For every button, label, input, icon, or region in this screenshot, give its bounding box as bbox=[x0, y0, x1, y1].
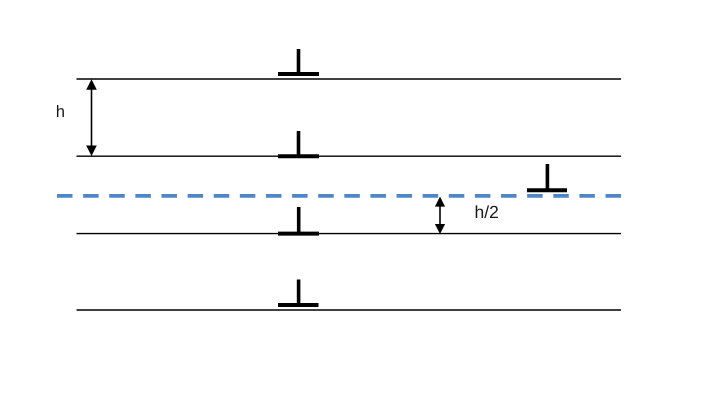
dashed image-plane line (blue) bbox=[57, 194, 621, 198]
label h bbox=[57, 105, 64, 117]
dimension arrow h/2 (between dashed line and line 3) bbox=[435, 197, 445, 234]
monopole antenna marker 4 above line 4 bbox=[278, 280, 319, 306]
conductor line 1 (top ground plane) bbox=[77, 78, 622, 80]
monopole antenna marker 2 on line 2 bbox=[278, 131, 319, 156]
monopole antenna marker 3 on line 3 bbox=[278, 207, 319, 234]
conductor line 2 bbox=[77, 155, 622, 157]
dimension arrow h (between line 1 and line 2) bbox=[86, 79, 97, 156]
conductor line 3 bbox=[77, 233, 622, 235]
conductor line 4 (bottom ground plane) bbox=[77, 309, 622, 311]
monopole antenna marker 1 above line 1 bbox=[278, 49, 319, 74]
label h/2 bbox=[476, 205, 498, 218]
monopole antenna marker 5 above dashed line bbox=[527, 164, 567, 190]
